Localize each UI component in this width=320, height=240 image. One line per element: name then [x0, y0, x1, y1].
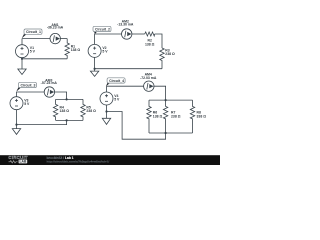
svg-text:-72.03 mA: -72.03 mA	[140, 76, 157, 80]
wire R2 to corner	[155, 34, 162, 48]
ammeter AM1	[50, 33, 60, 43]
wire bottom rail C1	[22, 58, 67, 60]
svg-text:338 Ω: 338 Ω	[197, 114, 207, 118]
svg-text:5 V: 5 V	[102, 50, 108, 54]
resistor R6	[147, 100, 151, 133]
svg-text:138 Ω: 138 Ω	[60, 109, 70, 113]
ammeter AM3	[44, 87, 54, 97]
svg-text:LAB: LAB	[20, 160, 27, 164]
wire parallel top rail C4	[149, 99, 193, 101]
voltage source V4	[100, 86, 113, 111]
svg-text:238 Ω: 238 Ω	[171, 114, 181, 118]
svg-text:Circuit_1: Circuit_1	[26, 30, 41, 34]
svg-text:-57.24 mA: -57.24 mA	[41, 81, 58, 85]
node junction C1	[21, 58, 23, 60]
svg-text:-36.23 mA: -36.23 mA	[47, 26, 64, 30]
ammeter AM2	[122, 29, 132, 39]
resistor R1	[65, 39, 69, 59]
svg-text:5 V: 5 V	[24, 102, 30, 106]
flag Circuit_1	[22, 29, 42, 38]
svg-text:138 Ω: 138 Ω	[145, 42, 155, 46]
resistor R5	[81, 99, 85, 120]
resistor R8	[190, 100, 194, 133]
voltage source V1	[16, 39, 29, 59]
node junction C4 bottom	[165, 132, 167, 134]
node junction C3 top	[66, 98, 68, 100]
svg-text:5 V: 5 V	[114, 98, 120, 102]
svg-text:138 Ω: 138 Ω	[71, 48, 81, 52]
wire parallel bottom rail C3	[56, 119, 83, 121]
svg-text:Circuit_4: Circuit_4	[109, 79, 124, 83]
svg-text:138 Ω: 138 Ω	[153, 114, 163, 118]
node junction C4 ground	[105, 110, 107, 112]
wire top rail C1	[22, 38, 50, 40]
svg-text:238 Ω: 238 Ω	[165, 52, 175, 56]
voltage source V3	[10, 92, 23, 125]
node junction C2	[94, 68, 96, 70]
wire return C3	[17, 120, 67, 124]
svg-text:Circuit_3: Circuit_3	[21, 84, 36, 88]
ground C3	[12, 125, 20, 135]
resistor R7	[163, 100, 167, 133]
svg-text:http://circuitlab.com/c/7k3qp2: http://circuitlab.com/c/7k3qp2e4vw8m/lab…	[47, 159, 110, 163]
flag Circuit_4	[106, 78, 125, 87]
node junction C3 bottom	[66, 119, 68, 121]
svg-text:5 V: 5 V	[30, 50, 36, 54]
ground C2	[90, 69, 98, 77]
wire return C4	[107, 112, 166, 140]
ground C1	[18, 59, 26, 75]
wire ammeter to corner C4	[154, 86, 166, 100]
wire top rail C4	[107, 85, 144, 87]
resistor R2	[145, 32, 155, 36]
svg-text:-13.30 mA: -13.30 mA	[117, 22, 134, 26]
node junction C3 ground	[15, 124, 17, 126]
logo zigzag	[9, 161, 18, 163]
svg-text:238 Ω: 238 Ω	[86, 109, 96, 113]
wire top rail C3	[17, 91, 45, 93]
wire bottom rail C2	[95, 68, 162, 70]
flag Circuit_3	[16, 82, 36, 91]
wire parallel top rail C3	[56, 98, 83, 100]
wire ammeter to corner C3	[55, 92, 67, 99]
node junction C4 top	[165, 99, 167, 101]
resistor R3	[160, 48, 164, 69]
svg-text:Circuit_2: Circuit_2	[95, 28, 110, 32]
flag Circuit_2	[93, 26, 111, 34]
ammeter AM4	[144, 81, 154, 91]
wire top rail C2	[95, 33, 122, 35]
wire ammeter to R2	[132, 33, 145, 35]
ground C4	[102, 112, 110, 125]
logo LAB box	[19, 160, 28, 164]
voltage source V2	[88, 34, 101, 69]
wire ammeter to R1 corner	[60, 38, 67, 40]
resistor R4	[53, 99, 57, 120]
wire parallel bottom rail C4	[149, 132, 193, 134]
